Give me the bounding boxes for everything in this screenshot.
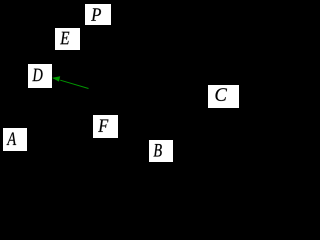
letter C	[216, 88, 228, 101]
node E	[55, 28, 80, 50]
arrow shaft	[60, 80, 88, 88]
node F	[93, 115, 118, 138]
letter E	[60, 32, 69, 44]
node C	[208, 85, 239, 108]
node P	[85, 4, 110, 26]
arrowhead	[52, 76, 60, 81]
letter P	[91, 8, 101, 20]
letter D	[32, 69, 42, 81]
node D	[28, 64, 52, 87]
node B	[149, 140, 173, 162]
letter F	[98, 119, 108, 131]
node A	[3, 128, 26, 150]
letter B	[154, 144, 162, 156]
green arrow to D	[0, 0, 241, 165]
letter A	[6, 132, 16, 145]
